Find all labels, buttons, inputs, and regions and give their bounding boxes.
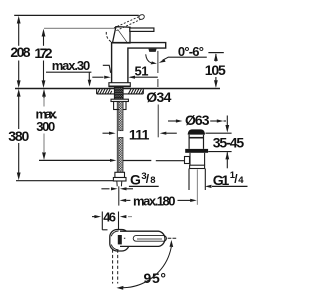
- svg-text:0°-6°: 0°-6°: [178, 44, 204, 59]
- svg-text:51: 51: [135, 63, 149, 78]
- svg-text:300: 300: [36, 119, 55, 134]
- svg-text:208: 208: [10, 44, 30, 60]
- svg-text:G: G: [130, 172, 141, 188]
- svg-text:4: 4: [238, 175, 244, 186]
- svg-text:G1: G1: [213, 172, 230, 188]
- svg-text:95°: 95°: [144, 270, 167, 286]
- svg-text:max.180: max.180: [133, 194, 176, 209]
- svg-text:max.30: max.30: [52, 58, 90, 73]
- svg-text:Ø34: Ø34: [146, 89, 171, 105]
- svg-text:8: 8: [150, 175, 155, 186]
- svg-text:35-45: 35-45: [213, 135, 245, 151]
- svg-text:172: 172: [34, 45, 52, 61]
- svg-text:111: 111: [129, 127, 150, 143]
- svg-text:105: 105: [205, 62, 226, 78]
- svg-text:46: 46: [103, 210, 116, 225]
- svg-text:Ø63: Ø63: [185, 112, 210, 128]
- svg-text:380: 380: [8, 128, 29, 144]
